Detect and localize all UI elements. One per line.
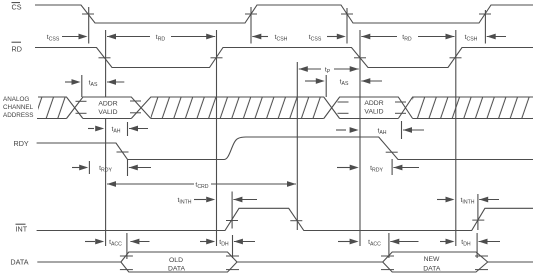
tick on INT rising edge 1 <box>226 220 238 222</box>
svg-text:ADDRESS: ADDRESS <box>3 112 33 119</box>
bus bottom rails <box>37 118 533 120</box>
ticks bus crossover 4 <box>395 101 406 103</box>
extension line at RD rise 1 (long) <box>216 30 218 246</box>
svg-text:ADDR: ADDR <box>98 100 117 107</box>
dimension tP (INT to RD) <box>299 66 359 75</box>
extension line INT fall (tP/tCRD reference) <box>296 62 298 230</box>
tick on INT falling edge <box>290 220 302 222</box>
tick on CS rising edge 1 <box>245 13 257 15</box>
extension line address valid 2 start <box>325 75 327 97</box>
bus rails ANALOG CHANNEL ADDRESS <box>38 97 533 119</box>
dimension tCRD <box>107 181 296 190</box>
dimension tRDY cycle 1 <box>72 165 151 174</box>
signal label CS (overlined) <box>12 3 22 12</box>
extension line address valid 1 start <box>81 75 83 97</box>
extension line data1 valid end <box>232 235 234 258</box>
dimension tAS cycle 1 <box>65 79 124 88</box>
svg-text:DATA: DATA <box>10 258 28 267</box>
extension line INT rise 1 <box>231 192 233 229</box>
text ADDR VALID 1 <box>98 100 117 116</box>
svg-text:ADDR: ADDR <box>364 100 383 107</box>
dimension tACC cycle 2 <box>338 239 419 248</box>
dimension tDH cycle 2 <box>440 239 500 248</box>
hatch fill segment 3 <box>413 97 533 119</box>
dimension tCSH cycle 2 <box>465 34 506 43</box>
ticks data1 opening <box>120 255 133 257</box>
dimension tRD cycle 2 <box>361 34 454 43</box>
extension line at CS rise 2 <box>484 10 486 44</box>
signal label ANALOG CHANNEL ADDRESS <box>3 96 34 119</box>
extension line tRDY2 right <box>391 159 393 175</box>
svg-text:VALID: VALID <box>98 109 117 116</box>
dimension tCSS cycle 1 <box>47 34 88 43</box>
hatch fill segment 2 <box>151 97 324 119</box>
text OLD DATA <box>168 257 186 273</box>
svg-text:CS: CS <box>12 3 22 12</box>
extension line at CS fall 2 <box>346 8 348 44</box>
extension line at RD fall 1 (long) <box>105 30 107 97</box>
extension line data2 valid end <box>476 233 478 258</box>
dimension tINTH cycle 1 <box>178 197 258 206</box>
extension line at CS rise 1 <box>250 7 252 44</box>
signal label RD (overlined) <box>12 42 22 53</box>
tick on RD rising edge 2 <box>450 57 462 59</box>
svg-text:INT: INT <box>16 225 28 234</box>
dimension tDH cycle 1 <box>200 239 255 248</box>
svg-text:NEW: NEW <box>424 256 440 263</box>
extension line data1 valid start <box>126 233 128 259</box>
dimension tINTH cycle 2 <box>437 197 499 206</box>
wire RD waveform <box>35 48 533 68</box>
wire DATA waveform with hexagons <box>37 252 533 272</box>
dimension tCSS cycle 2 <box>309 34 346 43</box>
ticks data2 closing <box>475 255 488 257</box>
signal label INT (overlined) <box>16 224 28 233</box>
ticks bus crossover 2 <box>130 100 141 102</box>
svg-text:DATA: DATA <box>423 266 441 273</box>
dimension tAH cycle 1 <box>88 126 148 135</box>
extension line INT rise 2 <box>477 194 479 230</box>
dimension tRDY cycle 2 <box>337 165 419 174</box>
extension line tRDY1 left <box>88 161 90 174</box>
tick on RDY falling edge 1 <box>117 151 129 153</box>
ticks bus crossover 1 <box>76 100 87 102</box>
extension line at CS fall 1 <box>88 7 90 44</box>
text NEW DATA <box>423 256 441 272</box>
wire CS waveform <box>35 5 533 23</box>
tick on RD falling edge 2 <box>354 57 366 59</box>
text ADDR VALID 2 <box>364 100 383 116</box>
tick on RDY falling edge 2 <box>386 151 398 153</box>
svg-text:DATA: DATA <box>168 266 186 273</box>
tick on INT rising edge 2 <box>472 219 484 221</box>
tick on RD falling edge 1 <box>99 57 111 59</box>
wire INT waveform <box>37 208 533 230</box>
dimension tRD cycle 1 <box>107 34 215 43</box>
ticks data1 closing <box>226 255 239 257</box>
dimension tCSH cycle 1 <box>252 34 287 43</box>
tick on CS falling edge 2 <box>341 13 353 15</box>
tick on CS rising edge 2 <box>479 13 491 15</box>
dimension tACC cycle 1 <box>85 239 150 248</box>
svg-text:OLD: OLD <box>169 257 183 264</box>
dimension tAS cycle 2 <box>305 78 382 87</box>
svg-text:VALID: VALID <box>364 108 383 115</box>
extension line tAH1 right <box>127 122 129 136</box>
ticks bus crossover 3 <box>338 101 349 103</box>
dimension tAH cycle 2 <box>336 127 424 136</box>
extension line tRDY1 right <box>127 160 129 176</box>
ticks data2 opening <box>381 255 394 257</box>
hatch fill segment 1 <box>38 97 67 119</box>
wire RDY waveform <box>37 137 533 160</box>
extension line tAH2 right <box>401 121 403 139</box>
extension line at RD rise 2 (long) <box>455 30 457 246</box>
extension line at RD fall 2 (long) <box>359 30 361 246</box>
svg-text:RD: RD <box>12 45 22 54</box>
tick on RD rising edge 1 <box>211 57 223 59</box>
svg-text:ANALOG: ANALOG <box>3 96 29 103</box>
svg-text:CHANNEL: CHANNEL <box>3 104 34 111</box>
svg-text:RDY: RDY <box>14 139 29 148</box>
tick on CS falling edge 1 <box>82 13 94 15</box>
extension line data2 valid start <box>388 233 390 258</box>
